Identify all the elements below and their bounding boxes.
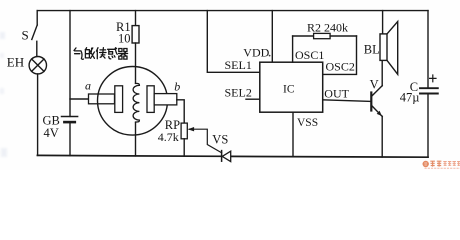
glyph qi xyxy=(74,48,83,59)
wire OUT pin xyxy=(323,100,371,102)
svg-text:a: a xyxy=(85,79,91,93)
svg-text:EH: EH xyxy=(7,54,24,69)
wire VDD branch xyxy=(271,11,273,63)
svg-text:OSC2: OSC2 xyxy=(326,60,355,74)
node speck near VDD xyxy=(269,55,271,57)
wire emitter down to bottom bus xyxy=(381,116,383,157)
wire sensor lead a xyxy=(70,98,89,100)
wire R1 to heater coil xyxy=(135,43,137,83)
wire lamp to bottom bus xyxy=(37,74,39,155)
wire VSS pin xyxy=(292,112,294,156)
svg-text:VDD: VDD xyxy=(243,45,269,59)
gas sensor body xyxy=(98,67,168,136)
svg-text:VSS: VSS xyxy=(297,117,318,129)
resistor R1 xyxy=(132,11,139,43)
watermark logo xyxy=(423,161,460,168)
battery GB xyxy=(62,117,78,123)
node a terminal plate xyxy=(89,94,115,104)
wire bottom bus right of VS xyxy=(231,155,428,158)
lamp EH xyxy=(29,56,46,73)
IC U1 xyxy=(260,62,323,112)
wire top bus xyxy=(37,10,428,12)
gas sensor right electrode xyxy=(147,86,154,113)
wire b lead to RP xyxy=(177,100,184,123)
resistor R2 xyxy=(314,33,331,38)
transistor V xyxy=(371,86,382,117)
svg-text:V: V xyxy=(370,77,379,91)
potentiometer RP xyxy=(181,123,187,139)
svg-text:IC: IC xyxy=(283,83,295,95)
svg-text:4.7k: 4.7k xyxy=(158,130,179,144)
glyph qi4 xyxy=(119,49,128,60)
svg-text:b: b xyxy=(174,80,180,94)
wire collector up to speaker xyxy=(381,60,383,85)
svg-text:S: S xyxy=(22,27,29,42)
svg-text:BL: BL xyxy=(364,42,380,56)
wire right side (capacitor to bottom) xyxy=(427,94,429,157)
svg-text:SEL2: SEL2 xyxy=(225,86,252,100)
capacitor C xyxy=(420,75,438,94)
wire battery to bottom bus xyxy=(69,122,71,156)
svg-text:47µ: 47µ xyxy=(400,90,420,104)
wire SEL1 branch xyxy=(207,11,259,73)
wire oscillator rail right xyxy=(330,35,356,37)
wire heater to bottom bus xyxy=(135,123,137,156)
svg-text:10: 10 xyxy=(118,32,131,46)
heater coil xyxy=(133,83,139,122)
svg-text:SEL1: SEL1 xyxy=(225,58,252,72)
svg-text:VS: VS xyxy=(212,132,228,146)
switch S xyxy=(32,11,37,57)
glyph chuan xyxy=(96,48,106,59)
glyph gan xyxy=(108,48,118,59)
svg-text:4V: 4V xyxy=(44,126,59,140)
thyristor VS xyxy=(222,151,231,162)
wire SEL2 stub xyxy=(246,98,260,100)
wire OSC1 pin xyxy=(292,36,294,62)
speaker BL xyxy=(380,11,398,75)
wire OSC2 pin xyxy=(323,36,357,74)
wire battery branch upper xyxy=(69,11,71,117)
wire oscillator rail left xyxy=(293,35,314,37)
wire bottom bus left of VS xyxy=(37,154,221,157)
wire RP to bottom bus xyxy=(183,139,185,156)
svg-text:OSC1: OSC1 xyxy=(295,48,324,62)
wire right side (top segment to capacitor) xyxy=(427,11,429,88)
svg-text:R2 240k: R2 240k xyxy=(307,21,348,35)
glyph min xyxy=(85,48,94,59)
label gas sensor (hand-drawn CJK) xyxy=(74,48,128,60)
node b terminal plate xyxy=(154,94,177,105)
RP wiper arrow xyxy=(188,127,222,153)
svg-text:OUT: OUT xyxy=(324,87,349,101)
gas sensor left electrode xyxy=(115,86,123,113)
